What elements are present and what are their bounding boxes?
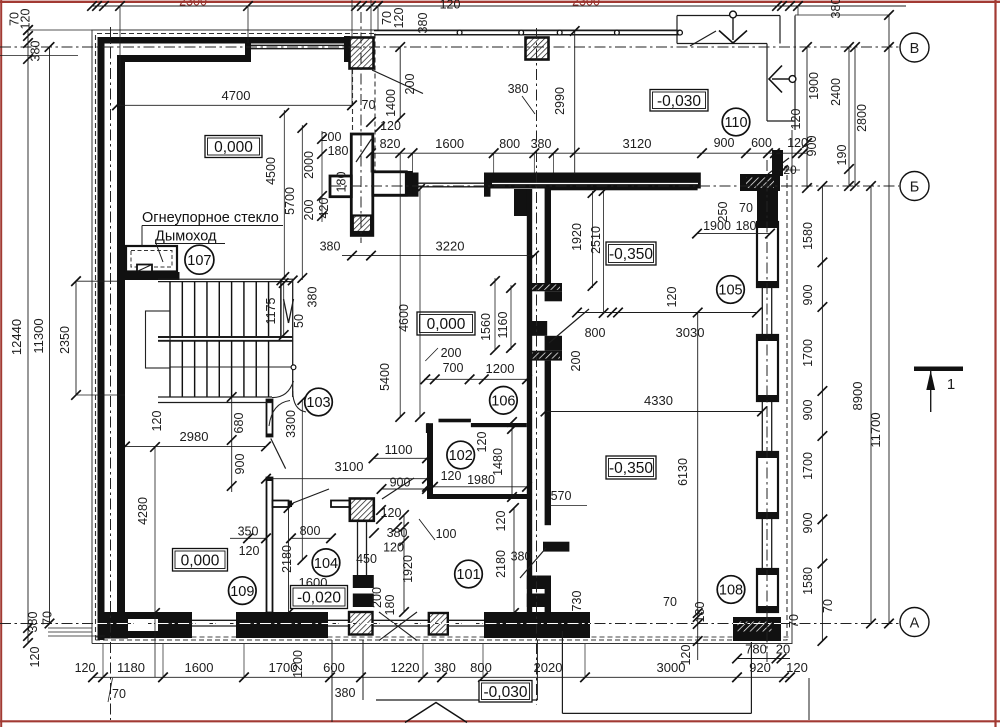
central wall right leaf middle (545, 361, 551, 526)
svg-text:380: 380 (829, 0, 843, 18)
right wall window unit 4 (757, 569, 778, 612)
svg-text:2400: 2400 (829, 78, 843, 106)
svg-text:2180: 2180 (280, 545, 294, 573)
porch top outline (677, 15, 780, 17)
dim line under Б wall windows (371, 152, 808, 154)
chimney small box (137, 265, 152, 272)
svg-text:1180: 1180 (117, 660, 145, 675)
stairs mid landing line (170, 366, 293, 368)
axis vertical left wall x=110.5 (110, 27, 112, 720)
svg-text:50: 50 (292, 314, 306, 328)
wall axis-Б band main (490, 173, 701, 189)
svg-text:120: 120 (787, 136, 808, 150)
svg-text:180: 180 (335, 172, 349, 193)
svg-text:1480: 1480 (491, 448, 505, 476)
door swing line room 104 (271, 439, 286, 469)
svg-text:380: 380 (416, 13, 430, 34)
dim 1100 (374, 457, 428, 459)
axis line B(v) horizontal y=47 (0, 46, 899, 48)
dim 2980 (125, 445, 266, 447)
dim chain right 8900 (870, 186, 872, 624)
svg-text:6130: 6130 (676, 458, 690, 486)
svg-text:0,000: 0,000 (181, 552, 220, 569)
bottom mini vertical chain at pier108 (697, 613, 699, 660)
svg-text:200: 200 (370, 587, 384, 608)
svg-text:-0,350: -0,350 (609, 460, 653, 477)
dim line 3030 room 105 (577, 312, 757, 314)
dim 1920 rotated bottom (403, 515, 405, 612)
axis circle Б (900, 172, 929, 201)
door swing room 105 (549, 309, 589, 343)
room circle 106 (490, 387, 518, 415)
svg-text:380: 380 (306, 287, 320, 308)
dim 1480 120 rotated (511, 422, 513, 497)
door jamb blocks below K3 (353, 575, 374, 588)
svg-text:800: 800 (300, 524, 321, 538)
svg-text:120: 120 (475, 432, 489, 453)
window top-left jamb left (245, 40, 251, 62)
svg-text:1600: 1600 (435, 136, 464, 151)
dim lines left of T-wall (283, 110, 285, 279)
top-left mini ticks (23, 25, 33, 35)
central wall door2 jamb bottom (527, 594, 551, 608)
svg-text:Б: Б (910, 180, 920, 196)
partition 102-101 horizontal (427, 494, 528, 499)
room circle 105 (717, 276, 745, 304)
dashed envelope line down at terrace (374, 34, 376, 173)
svg-text:1920: 1920 (401, 555, 415, 583)
svg-text:680: 680 (232, 413, 246, 434)
svg-text:Огнеупорное стекло: Огнеупорное стекло (142, 210, 279, 226)
partition 106-102 horizontal left (439, 419, 471, 423)
svg-text:380: 380 (434, 660, 456, 675)
right wall window unit 1 (757, 222, 778, 287)
dim 900 door (382, 488, 428, 490)
wall stub left of central at Б (514, 189, 527, 216)
central wall right leaf lower (545, 578, 551, 612)
svg-text:4700: 4700 (222, 88, 251, 103)
svg-text:780: 780 (745, 642, 767, 657)
svg-text:120: 120 (28, 647, 42, 668)
svg-text:4600: 4600 (397, 304, 411, 332)
bottom-left short lines (48, 627, 92, 629)
svg-text:120: 120 (679, 645, 693, 666)
svg-text:2180: 2180 (494, 550, 508, 578)
svg-text:920: 920 (749, 660, 771, 675)
svg-text:120: 120 (440, 0, 461, 12)
svg-text:2980: 2980 (180, 429, 209, 444)
chimney black band below (122, 272, 180, 280)
partition 109 upper hollow (267, 400, 273, 437)
svg-text:2510: 2510 (589, 226, 603, 254)
dim chain right 11700 (888, 15, 890, 624)
T-wall right wing hollow (373, 172, 407, 195)
central door jamb blocks (545, 291, 562, 301)
dim chain right 2800 (854, 47, 856, 186)
svg-text:3300: 3300 (284, 410, 298, 438)
ext lines left (76, 280, 117, 282)
svg-text:120: 120 (494, 511, 508, 532)
T-wall right wing jamb (406, 171, 413, 196)
bottom porch line and arrow (376, 699, 537, 701)
top chain extension verticals (119, 6, 121, 105)
right wall glazing lines (761, 191, 763, 612)
lintel hatched right of Б wall (740, 174, 780, 191)
level box -0,030 terrace (650, 90, 708, 112)
room circle 110 (722, 108, 750, 136)
stairs left landing rect (146, 311, 171, 368)
axis line Б horizontal y=186 (330, 185, 899, 187)
svg-text:1580: 1580 (801, 222, 815, 250)
svg-text:120: 120 (380, 119, 401, 133)
column K1 hatched top (350, 38, 374, 69)
dim 4280 rotated (154, 447, 156, 677)
svg-text:800: 800 (585, 326, 606, 340)
ext line inner leaf to left chain (0, 55, 78, 57)
svg-text:А: А (910, 616, 920, 632)
stair T-wall bottom cap (351, 231, 373, 235)
svg-text:1900: 1900 (807, 72, 821, 100)
column K5 hatched bottom (429, 613, 448, 635)
svg-text:3100: 3100 (335, 459, 364, 474)
stairs top boundary (158, 278, 293, 280)
wall top outer leaf (98, 37, 375, 44)
svg-text:-0,030: -0,030 (657, 93, 701, 110)
entrance door swing from terrace (372, 70, 423, 94)
stairs risers upper flight (169, 282, 171, 337)
white axis streak through bottom wall (96, 623, 590, 625)
door swing porch top (690, 31, 716, 46)
dim 6130 rotated (697, 313, 699, 614)
central wall left leaf (527, 189, 532, 612)
bottom window 3 glazing (373, 619, 429, 621)
stairs middle landing lines (158, 336, 293, 338)
axis line А horizontal y=623.5 (0, 623, 899, 625)
glazing below column K3 (357, 521, 359, 575)
svg-text:2000: 2000 (302, 151, 316, 179)
svg-text:120: 120 (150, 411, 164, 432)
svg-text:1600: 1600 (185, 660, 214, 675)
svg-text:1700: 1700 (801, 339, 815, 367)
stairs risers lower flight (169, 341, 171, 397)
svg-text:4280: 4280 (136, 497, 150, 525)
svg-text:250: 250 (716, 202, 730, 223)
dim chain bottom (93, 676, 790, 678)
axis circle В (900, 33, 929, 62)
right wall top pier (757, 189, 778, 222)
svg-text:-0,020: -0,020 (297, 590, 341, 607)
T-wall left wing hollow (330, 176, 351, 197)
svg-text:2020: 2020 (534, 660, 563, 675)
level box 0,000 living (205, 136, 262, 158)
svg-text:1: 1 (947, 376, 955, 393)
svg-text:190: 190 (835, 145, 849, 166)
svg-text:120: 120 (75, 661, 96, 675)
stair T-wall vertical hollow (351, 134, 373, 235)
chimney small box diagonal (138, 265, 151, 271)
svg-text:800: 800 (499, 137, 520, 151)
svg-text:350: 350 (238, 525, 259, 539)
svg-text:4500: 4500 (264, 157, 278, 185)
svg-text:3120: 3120 (623, 136, 652, 151)
axis vertical central wall x=536.5 (536, 28, 538, 705)
wall left outer leaf (98, 37, 105, 640)
svg-text:1700: 1700 (801, 452, 815, 480)
svg-text:110: 110 (724, 115, 747, 131)
svg-text:109: 109 (230, 584, 254, 600)
room circle 103 (305, 388, 333, 416)
svg-text:380: 380 (511, 550, 532, 564)
wall left inner leaf (117, 55, 125, 613)
dim 1400 rotated (399, 47, 401, 118)
svg-text:-0,350: -0,350 (609, 246, 653, 263)
stairs bottom boundary (158, 396, 272, 398)
porch door jamb wall (772, 150, 783, 176)
svg-text:900: 900 (390, 476, 411, 490)
door X diagonals bottom center (379, 612, 417, 641)
ext stubs Б-wall dim line (370, 153, 372, 172)
svg-text:0,000: 0,000 (427, 316, 466, 333)
bottom window 1 glazing (192, 619, 236, 621)
window axis-Б jamb left (412, 173, 419, 197)
chimney outer rect (126, 246, 177, 272)
window axis-Б jamb right (484, 173, 491, 197)
dim 4600 rotated (419, 189, 421, 417)
door swing room 101 (520, 548, 546, 578)
svg-text:380: 380 (29, 41, 43, 62)
inner dashed contour bottom (96, 636, 789, 638)
svg-text:700: 700 (443, 361, 464, 375)
svg-text:900: 900 (233, 454, 247, 475)
svg-text:70: 70 (112, 687, 126, 701)
bottom wall pier 2 (236, 612, 328, 638)
svg-text:380: 380 (508, 82, 529, 96)
window top-left glazing (251, 44, 346, 46)
central wall protrusion in room 101 (543, 542, 569, 552)
svg-text:200: 200 (441, 346, 462, 360)
bottom window 4 glazing (448, 619, 484, 621)
svg-text:900: 900 (714, 136, 735, 150)
column K3 hatched center (350, 499, 374, 521)
dim 120 1980 row (427, 486, 527, 488)
outer contour dashed line (96, 34, 376, 641)
central wall door2 jamb top (527, 576, 551, 590)
stairs handrail curve B (293, 391, 306, 412)
svg-text:2350: 2350 (58, 326, 72, 354)
door swing arc room 104 (269, 401, 290, 427)
svg-text:0,000: 0,000 (214, 139, 253, 156)
dim 2180 left rotated (288, 508, 290, 613)
bottom wall pier 1 (158, 612, 192, 638)
central wall right leaf upper (545, 187, 551, 283)
svg-text:106: 106 (491, 394, 515, 410)
partition wing to door (273, 501, 289, 508)
bottom wall thin leaves (125, 612, 160, 619)
ext 4700 verticals (351, 69, 353, 105)
bottom window 2 glazing (328, 619, 349, 621)
svg-text:600: 600 (751, 136, 772, 150)
svg-text:120: 120 (789, 109, 803, 130)
svg-text:900: 900 (801, 285, 815, 306)
svg-text:600: 600 (323, 660, 345, 675)
svg-text:820: 820 (380, 137, 401, 151)
room circle 107 (185, 245, 214, 274)
svg-text:120: 120 (441, 469, 462, 483)
svg-text:3030: 3030 (676, 325, 705, 340)
svg-text:100: 100 (436, 527, 457, 541)
svg-text:12440: 12440 (9, 319, 24, 355)
svg-text:450: 450 (356, 552, 377, 566)
axis vertical stair wall x=361 (360, 12, 362, 243)
svg-text:1580: 1580 (801, 567, 815, 595)
svg-text:1920: 1920 (570, 223, 584, 251)
central door lintel 1 hatched (530, 283, 562, 291)
svg-text:800: 800 (470, 660, 492, 675)
porch post circle right (789, 76, 796, 83)
svg-text:380: 380 (335, 686, 356, 700)
svg-text:1220: 1220 (391, 660, 420, 675)
svg-text:5700: 5700 (283, 187, 297, 215)
svg-text:70: 70 (821, 599, 835, 613)
dim 3300 rotated (301, 400, 303, 560)
column K4 hatched bottom (349, 612, 373, 635)
svg-text:1100: 1100 (385, 442, 413, 457)
level box -0,350 room105 (606, 242, 656, 265)
door swing line 104-109 (293, 489, 329, 503)
chimney inner dashed (131, 251, 172, 268)
room circle 101 (455, 560, 483, 588)
outer contour thin line (92, 30, 677, 644)
svg-text:380: 380 (531, 137, 552, 151)
wall axis-Б left lower leaf (369, 189, 412, 197)
room circle 109 (229, 577, 257, 605)
pier 108 hatched bottom right (733, 617, 781, 641)
dashed envelope line at column K1 left (352, 69, 354, 134)
svg-text:120: 120 (786, 660, 808, 675)
dim 2180 right rotated (513, 508, 515, 613)
svg-text:120: 120 (239, 544, 260, 558)
dim chain 12440 (27, 30, 29, 643)
label leaders (141, 226, 143, 247)
level box -0,350 room101 (606, 456, 656, 479)
svg-text:120: 120 (665, 287, 679, 308)
window top-left jamb right (344, 36, 350, 62)
bottom porch verticals (331, 640, 333, 722)
section mark bar (914, 367, 963, 372)
room circle 108 (717, 576, 745, 604)
bottom wall corner block (98, 612, 129, 639)
dim 200 700 1200 row (424, 378, 527, 380)
svg-text:1175: 1175 (264, 298, 278, 325)
svg-text:1160: 1160 (496, 312, 510, 339)
stairs handrail curve A (272, 381, 294, 398)
wall axis-Б left upper leaf (369, 173, 412, 180)
svg-text:900: 900 (801, 513, 815, 534)
right wall window unit 2 (757, 335, 778, 401)
stairs post circle (291, 365, 296, 370)
dim 800 door109 (291, 537, 331, 539)
svg-text:1400: 1400 (384, 89, 398, 117)
svg-text:4330: 4330 (644, 393, 673, 408)
level box -0,030 bottom (479, 681, 532, 703)
railing posts (457, 30, 462, 35)
central door lintel 2 hatched (530, 351, 562, 361)
svg-text:180: 180 (328, 144, 349, 158)
svg-text:730: 730 (570, 591, 584, 612)
svg-text:104: 104 (314, 556, 338, 572)
dim chain right 8-segments (821, 186, 823, 641)
svg-text:20: 20 (776, 642, 790, 657)
svg-text:120: 120 (392, 8, 406, 29)
dim chain right 2400-190 (848, 47, 850, 186)
room circle 102 (447, 441, 475, 469)
svg-text:900: 900 (801, 400, 815, 421)
svg-text:3220: 3220 (436, 239, 465, 254)
axis circle А (900, 608, 929, 637)
stair T-wall diagonal (356, 139, 372, 162)
dim chain 2350 stairs (75, 281, 77, 395)
svg-text:11700: 11700 (868, 412, 883, 447)
right wall window unit 3 (757, 452, 778, 518)
stairs right stringer (292, 279, 294, 397)
svg-text:105: 105 (718, 283, 742, 299)
svg-text:70: 70 (362, 98, 376, 112)
svg-text:1560: 1560 (479, 313, 493, 341)
dim 4330 (546, 411, 763, 413)
svg-text:120: 120 (383, 541, 404, 555)
section mark arrow (930, 371, 932, 413)
dim 3100 (266, 478, 427, 480)
level box -0,020 hall (291, 586, 348, 609)
svg-text:102: 102 (449, 448, 473, 464)
svg-text:2300: 2300 (179, 0, 207, 9)
svg-text:570: 570 (551, 489, 572, 503)
svg-text:70: 70 (787, 614, 801, 628)
svg-text:200: 200 (569, 351, 583, 372)
stairs direction arrow (284, 299, 289, 323)
dim 120 380 120 right of K3 (399, 522, 409, 532)
dim chain right 1900-900 (806, 47, 808, 188)
porch left arrow (772, 78, 790, 80)
dim 2990 rotated (574, 31, 576, 174)
svg-text:108: 108 (719, 583, 743, 599)
axis vertical right wall x=767 (766, 160, 768, 662)
svg-text:70: 70 (663, 595, 677, 609)
porch post circle top (730, 11, 737, 18)
svg-text:В: В (910, 41, 920, 57)
level box 0,000 hall (417, 312, 475, 335)
red border frame (0, 1, 1000, 3)
svg-text:200: 200 (302, 200, 316, 221)
dim 3220 (342, 255, 534, 257)
svg-text:1200: 1200 (291, 650, 305, 678)
svg-text:380: 380 (320, 240, 341, 254)
dim chain 11300 (49, 47, 51, 624)
dim subchain 780-20 (737, 658, 790, 660)
svg-text:70: 70 (41, 611, 55, 625)
column K2 hatched top center (526, 38, 549, 60)
svg-text:2300: 2300 (572, 0, 600, 9)
svg-text:107: 107 (187, 253, 211, 269)
svg-text:Дымоход: Дымоход (155, 229, 217, 245)
partition wing to column K3 (331, 501, 350, 508)
door swing porch right (768, 158, 789, 174)
svg-text:120: 120 (19, 9, 33, 30)
svg-text:420: 420 (317, 198, 331, 219)
svg-text:-0,030: -0,030 (484, 684, 528, 701)
level box 0,000 room109 (173, 549, 228, 572)
svg-text:11300: 11300 (31, 318, 46, 353)
